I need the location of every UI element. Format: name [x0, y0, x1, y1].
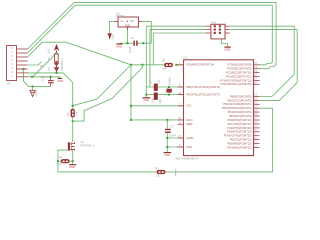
- svg-text:PB5(SCK)(PCINT5): PB5(SCK)(PCINT5): [229, 114, 252, 118]
- svg-text:R4: R4: [59, 156, 63, 160]
- svg-text:PB2(SS/OC1B)(PCINT2): PB2(SS/OC1B)(PCINT2): [223, 102, 251, 106]
- wire JP1 pin5 stub: [28, 62, 42, 65]
- net tick on bottom wire: [175, 169, 177, 176]
- svg-text:R1: R1: [60, 58, 64, 62]
- svg-text:GND: GND: [125, 24, 131, 28]
- svg-text:+12V: +12V: [111, 34, 115, 40]
- svg-text:PB3(MOSI/OC2)(PCINT3): PB3(MOSI/OC2)(PCINT3): [222, 106, 252, 110]
- wire ISP left row2: [150, 29, 206, 31]
- wire ISP left row3: [153, 32, 206, 34]
- wire AGND rail: [167, 137, 183, 139]
- node gate bottom-wire junction: [57, 160, 59, 162]
- node reset before IC: [175, 64, 177, 66]
- wire regulator VO down: [143, 21, 152, 43]
- node D1 bottom on gate net: [56, 72, 58, 74]
- gnd symbol right of C2: [57, 78, 63, 82]
- svg-text:VCC: VCC: [186, 104, 192, 108]
- svg-text:GND: GND: [186, 145, 192, 149]
- node source gnd junction: [72, 160, 74, 162]
- svg-text:PB4(MISO)(PCINT4): PB4(MISO)(PCINT4): [228, 110, 252, 114]
- gnd symbol under SV1: [224, 47, 230, 52]
- node crystal top: [168, 86, 170, 88]
- wire down to mosfet drain: [72, 121, 74, 142]
- wire regulator gnd rail left: [120, 42, 134, 44]
- wire mosfet source down: [72, 149, 74, 164]
- node avcc left: [130, 119, 132, 121]
- wire gnd arrow stub: [32, 86, 34, 90]
- wire reset line to jumper R2: [131, 64, 166, 66]
- gnd arrow below JP1 area: [30, 90, 38, 96]
- jumper R4 gate-source: [57, 156, 70, 167]
- node resonator common: [145, 94, 147, 96]
- wire net2 JP1 pin2 to IC PC0 via top: [28, 5, 273, 65]
- svg-text:10k: 10k: [57, 162, 62, 166]
- svg-text:PD5(T1)(PCINT21): PD5(T1)(PCINT21): [230, 138, 252, 142]
- pin header SV1: [206, 21, 230, 39]
- wire bottom long to IC PD1: [58, 108, 273, 172]
- svg-text:PD2(INT0)(PCINT18): PD2(INT0)(PCINT18): [227, 126, 251, 130]
- capacitor C2: [40, 75, 54, 87]
- resonator crystal body: [166, 89, 171, 93]
- node reset gate join: [142, 64, 144, 66]
- svg-text:AVCC: AVCC: [186, 118, 193, 122]
- IC2 right pin stubs: [254, 65, 260, 148]
- wire resonator top rail XTAL1: [146, 86, 183, 88]
- svg-text:MEGA48/88/168-PU: MEGA48/88/168-PU: [176, 157, 200, 161]
- wire ISP left row1: [146, 25, 206, 27]
- svg-text:D1: D1: [47, 67, 51, 71]
- mosfet Q1: [68, 140, 95, 151]
- wire resonator bottom rail XTAL2: [146, 94, 183, 96]
- svg-text:SV1: SV1: [211, 21, 216, 25]
- wire ISP gnd drop: [221, 39, 227, 47]
- wire diagonal p8 to VCC node: [33, 53, 56, 76]
- svg-text:GND: GND: [57, 79, 63, 83]
- voltage regulator IC1: [114, 12, 143, 30]
- svg-text:C4: C4: [149, 80, 153, 84]
- svg-text:Q1: Q1: [157, 79, 161, 83]
- node avcc c3: [166, 119, 168, 121]
- svg-text:22p: 22p: [158, 99, 162, 104]
- svg-text:GND: GND: [116, 45, 122, 49]
- svg-text:PB1(OC1A)(PCINT1): PB1(OC1A)(PCINT1): [227, 98, 251, 102]
- svg-text:PB6(XTAL1/TOSC1)(PCINT6): PB6(XTAL1/TOSC1)(PCINT6): [186, 85, 220, 89]
- node gnd arrow stub: [32, 85, 34, 87]
- svg-text:+5V: +5V: [46, 48, 50, 53]
- node reset diag join: [130, 64, 132, 66]
- wire JP1 pin6 stub: [17, 68, 24, 70]
- wire regulator output rail right of C1: [138, 42, 151, 44]
- wire net6 JP1 pin6 to gate node: [28, 73, 73, 106]
- svg-text:GND: GND: [69, 165, 75, 169]
- svg-text:16MHz: 16MHz: [167, 76, 171, 85]
- wire gate left down to jumper R4: [58, 150, 68, 161]
- svg-text:PD3(INT1)(PCINT19): PD3(INT1)(PCINT19): [227, 130, 251, 134]
- wire gate diag A: [73, 65, 131, 106]
- svg-text:VI: VI: [121, 19, 124, 23]
- node vcc rail: [130, 105, 132, 107]
- svg-text:C1: C1: [131, 36, 135, 40]
- wire JP1 pin8 row to gnd symbol: [28, 77, 60, 78]
- capacitor C1 polarized: [128, 36, 138, 53]
- node p8 vcc diag: [31, 76, 33, 78]
- IC2 left pin stubs: [178, 65, 184, 147]
- wire jumper R2 to IC pin1: [175, 64, 184, 66]
- gnd symbol under regulator: [116, 44, 122, 49]
- svg-text:PD0(RXD)(PCINT16): PD0(RXD)(PCINT16): [227, 118, 251, 122]
- svg-text:C2: C2: [41, 77, 45, 81]
- wire gate node to jumper R5: [72, 106, 74, 109]
- svg-text:R2: R2: [162, 58, 166, 62]
- wire ISP v3 to reset: [152, 33, 154, 65]
- svg-text:PD4(XCK/T0)(PCINT20): PD4(XCK/T0)(PCINT20): [224, 134, 252, 138]
- svg-text:GND: GND: [34, 90, 38, 96]
- svg-text:10k: 10k: [47, 57, 51, 62]
- svg-text:IRF3704L-V: IRF3704L-V: [80, 143, 94, 147]
- svg-text:PC1(ADC1)(PCINT9): PC1(ADC1)(PCINT9): [227, 67, 251, 71]
- svg-text:R5: R5: [66, 112, 70, 116]
- supply +12V arrow: [107, 33, 115, 40]
- gnd symbol under IC gnd pins: [164, 153, 172, 158]
- svg-text:VO: VO: [130, 19, 134, 23]
- svg-text:PC2(ADC2)(PCINT10): PC2(ADC2)(PCINT10): [226, 71, 252, 75]
- svg-text:100uF: 100uF: [128, 46, 132, 54]
- wire reg gnd pin down: [126, 28, 128, 44]
- svg-text:10k: 10k: [75, 111, 79, 116]
- wire vcc node to R1: [56, 52, 58, 54]
- svg-text:PD6(AIN0)(PCINT22): PD6(AIN0)(PCINT22): [227, 141, 252, 145]
- svg-text:1N4148: 1N4148: [60, 62, 64, 72]
- svg-text:PB0(ICP)(PCINT0): PB0(ICP)(PCINT0): [230, 94, 252, 98]
- diode D1: [47, 61, 64, 72]
- wire net3 JP1 pin3 reset DTR diagonal: [28, 42, 132, 65]
- node reg gnd: [126, 42, 128, 44]
- IC2 right pin numbers: [254, 61, 257, 148]
- svg-text:R3: R3: [155, 166, 159, 170]
- svg-text:GND: GND: [164, 153, 170, 157]
- wire jumper R5 to lower node: [72, 118, 74, 121]
- wire vertical VCC/AVCC feed x131: [130, 65, 132, 120]
- node C2 top: [50, 76, 52, 78]
- svg-text:10k: 10k: [162, 67, 167, 71]
- node JP1 pin6 junction: [23, 68, 25, 70]
- svg-text:PB7(XTAL2/TOSC2)(PCINT7): PB7(XTAL2/TOSC2)(PCINT7): [186, 93, 220, 97]
- svg-text:AREF: AREF: [186, 122, 193, 126]
- wire gate diag B: [73, 65, 143, 121]
- wire pin6 branch down to C2 bottom rail: [24, 69, 51, 86]
- jumper R5 on drain line: [66, 109, 79, 118]
- node gnd rail: [166, 146, 168, 148]
- IC2 right pin names: [220, 63, 252, 150]
- node below vcc arrow: [56, 52, 58, 54]
- wire ISP right row1 to IC PB0: [230, 26, 294, 96]
- IC2 ATmega box: [176, 56, 254, 161]
- svg-text:AGND: AGND: [186, 136, 194, 140]
- IC2 left pin names: [186, 63, 220, 149]
- node gate bottom: [72, 120, 74, 122]
- svg-text:PC4(ADC4/SDA)(PCINT12): PC4(ADC4/SDA)(PCINT12): [220, 78, 252, 82]
- svg-text:GND: GND: [225, 48, 231, 52]
- node agnd: [166, 137, 168, 139]
- wire source jumper right: [70, 160, 73, 162]
- svg-text:100nF: 100nF: [169, 134, 177, 138]
- svg-text:PD7(AIN1)(PCINT23): PD7(AIN1)(PCINT23): [227, 145, 252, 149]
- svg-text:10k: 10k: [155, 174, 160, 178]
- connector JP1: [7, 46, 28, 86]
- svg-text:PD1(TXD)(PCINT17): PD1(TXD)(PCINT17): [228, 122, 252, 126]
- wire net1 JP1 pin1 to IC PC1 via top: [28, 2, 277, 68]
- svg-text:PC3(ADC3)(PCINT11): PC3(ADC3)(PCINT11): [226, 74, 252, 78]
- resistor R1: [47, 54, 64, 62]
- svg-text:IC2: IC2: [184, 56, 189, 60]
- wire ISP right row2 to IC PB1: [230, 30, 297, 101]
- node gate top: [72, 105, 74, 107]
- resonator Q1 caps: [154, 84, 158, 100]
- IC2 left pin numbers: [178, 61, 181, 147]
- node crystal bottom: [168, 94, 170, 96]
- svg-text:JP1: JP1: [7, 82, 12, 86]
- svg-text:7805TV: 7805TV: [116, 14, 125, 18]
- wire ISP v1 to resonator gnd: [145, 26, 147, 97]
- jumper R3 on bottom wire: [155, 166, 165, 177]
- svg-text:22p: 22p: [150, 98, 154, 103]
- resonator gnd: [143, 98, 151, 102]
- capacitor C3: [165, 124, 177, 137]
- wire VCC rail to IC: [131, 105, 184, 107]
- jumper R2 on reset line: [162, 58, 173, 70]
- svg-text:PC5(ADC5/SCL)(PCINT13): PC5(ADC5/SCL)(PCINT13): [220, 82, 251, 86]
- svg-text:PC6(/RESET)(PCINT14): PC6(/RESET)(PCINT14): [186, 63, 214, 67]
- supply VCC arrow at R1: [46, 44, 59, 53]
- svg-text:GND: GND: [143, 98, 149, 102]
- wire regulator VI to supply: [110, 21, 115, 33]
- svg-text:PC0(ADC0)(PCINT8): PC0(ADC0)(PCINT8): [227, 63, 251, 67]
- wire ISP v2: [149, 30, 151, 87]
- wire C3 down: [166, 120, 168, 129]
- wire AVCC rail to IC: [131, 119, 184, 121]
- wire GND rail pin8: [167, 146, 183, 148]
- svg-text:C3: C3: [170, 124, 174, 128]
- gnd symbol under mosfet source: [69, 165, 76, 170]
- node C1 right: [142, 42, 144, 44]
